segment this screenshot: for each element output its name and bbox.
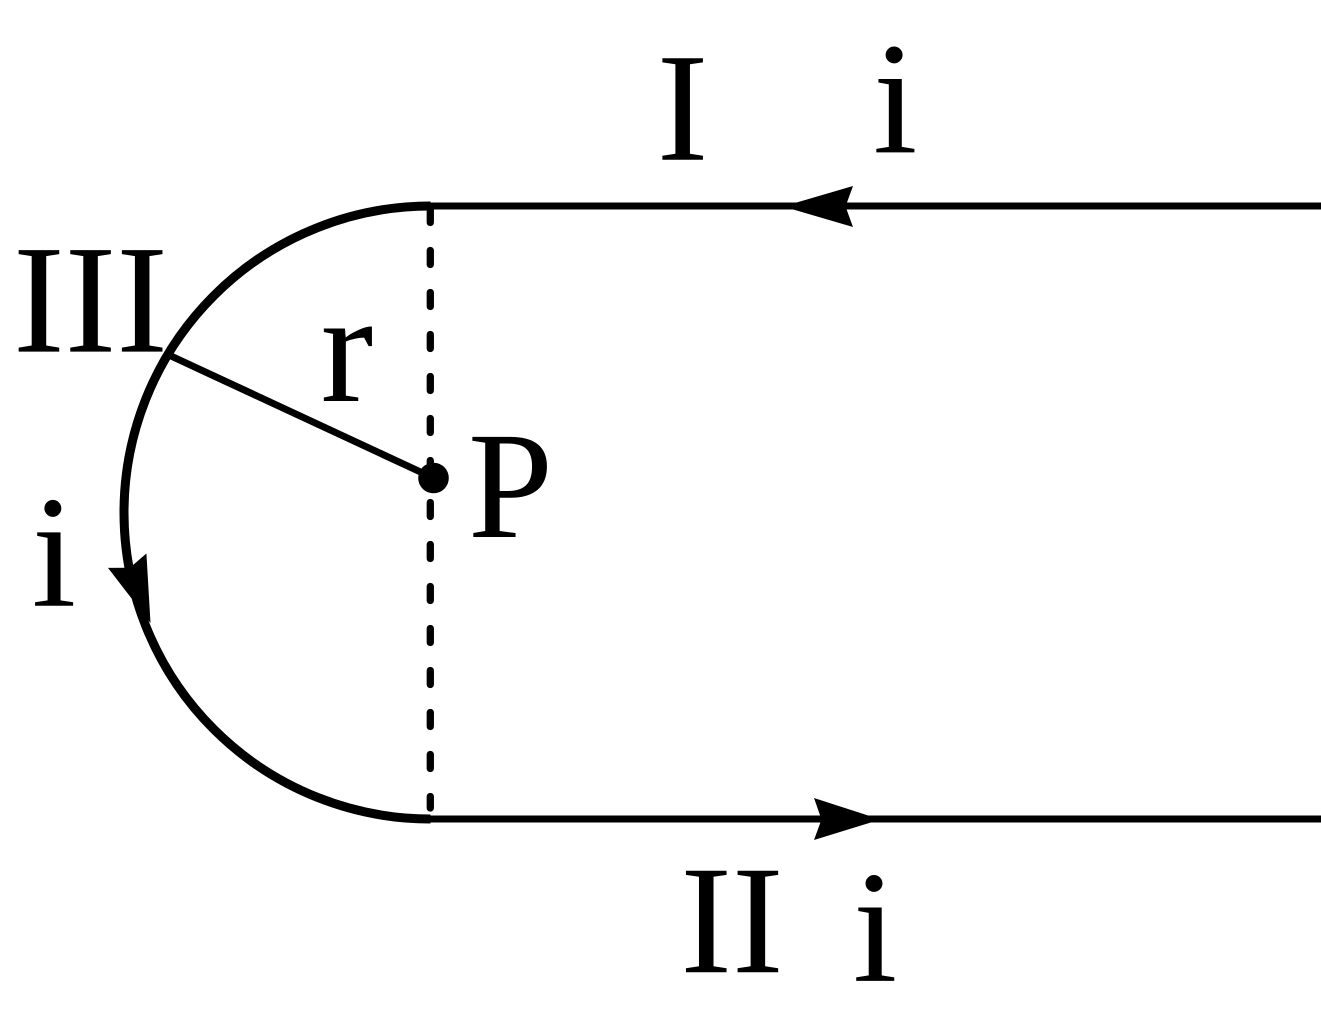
svg-text:i: i [853,838,897,1016]
svg-text:i: i [873,9,917,187]
svg-text:r: r [321,261,374,436]
dashed diameter line through P [427,209,434,809]
svg-text:III: III [13,214,168,386]
wire III (semicircular arc) [124,206,431,819]
current arrow on wire I (pointing left) [783,186,853,227]
svg-text:P: P [468,402,553,571]
wire II (bottom horizontal wire) [429,816,1321,823]
svg-text:I: I [657,22,709,194]
current arrow on wire II (pointing right) [814,798,881,840]
radius line r [171,356,434,478]
svg-text:II: II [680,834,783,1006]
point P dot [418,463,449,494]
svg-text:i: i [32,463,76,641]
current arrow on arc III (pointing down along arc) [108,554,170,631]
wire I (top horizontal wire) [429,203,1321,210]
